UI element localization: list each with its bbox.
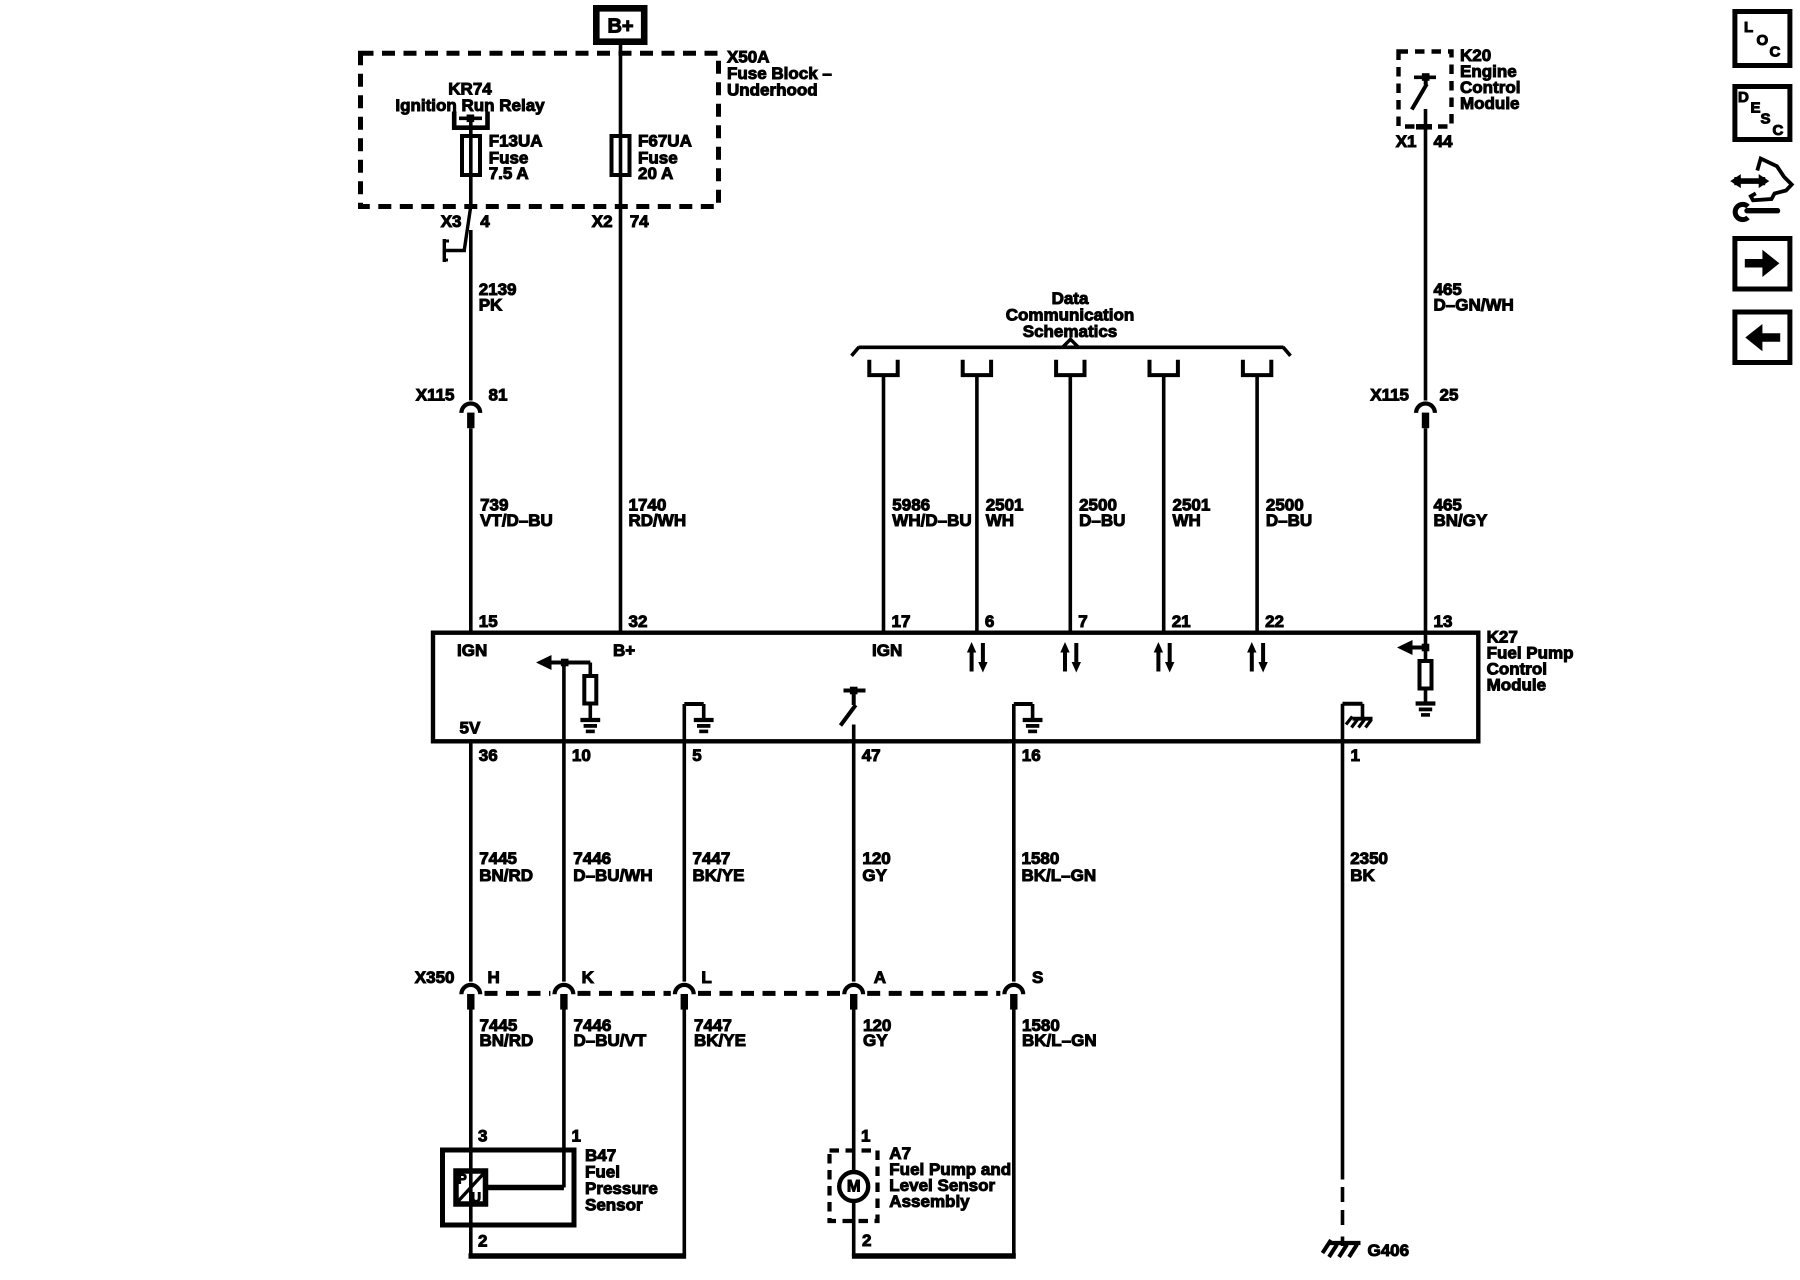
pump A7 dashed box — [830, 1151, 878, 1222]
label 7445 BN/RD below X350 — [480, 1016, 534, 1050]
switch inside K20 — [1412, 73, 1436, 109]
inline connector X115 pin 25 — [1370, 386, 1458, 429]
icon arrow next — [1735, 239, 1790, 290]
svg-text:X1: X1 — [1396, 132, 1417, 151]
svg-text:47: 47 — [862, 746, 881, 765]
svg-text:BK/YE: BK/YE — [693, 866, 745, 885]
label 7447 BK/YE — [693, 849, 745, 885]
wire B47 pin 2 to X350 L return — [469, 1253, 687, 1258]
label K20 Engine Control Module — [1460, 46, 1520, 113]
label 1580 BK/L-GN — [1022, 849, 1097, 885]
label B47 Fuel Pressure Sensor — [585, 1146, 658, 1215]
svg-text:L: L — [701, 968, 711, 987]
svg-text:74: 74 — [630, 212, 649, 231]
wire B47 pin 1 internal link — [488, 1185, 564, 1190]
label F13UA Fuse 7.5 A — [489, 132, 543, 183]
icon DESC — [1735, 87, 1790, 140]
label KR74 Ignition Run Relay — [395, 80, 545, 115]
label 7445 BN/RD — [479, 849, 533, 885]
ECM K20 dashed outline — [1399, 52, 1452, 127]
data link terminal 2500 — [1056, 360, 1084, 375]
svg-text:D–BU: D–BU — [1266, 511, 1312, 530]
fuse block X50A dashed outline — [361, 53, 719, 206]
svg-text:GY: GY — [863, 1031, 888, 1050]
svg-text:C: C — [1770, 44, 1781, 61]
pin numbers top row of K27 — [479, 612, 1453, 631]
label 1740 RD/WH — [629, 496, 687, 530]
connector X350 terminal S — [1004, 968, 1043, 1010]
wire 2501 WH to module pin 6 — [975, 375, 979, 633]
svg-text:K: K — [582, 968, 595, 987]
svg-text:5V: 5V — [460, 719, 481, 738]
label 2350 BK — [1350, 849, 1388, 885]
icon arrow back — [1735, 312, 1790, 363]
motor M symbol — [839, 1172, 868, 1201]
svg-text:D–BU/VT: D–BU/VT — [574, 1031, 647, 1050]
label 2501 WH — [1173, 496, 1211, 530]
label 465 D-GN/WH — [1434, 280, 1514, 315]
connector X350 terminal H — [461, 968, 499, 1010]
label 120 GY below X350 — [863, 1016, 891, 1050]
label 2139 PK — [479, 280, 517, 315]
label K27 Fuel Pump Control Module — [1487, 628, 1574, 695]
internal branch pin 10: arrow, resistor, ground — [536, 655, 600, 731]
svg-text:15: 15 — [479, 612, 498, 631]
svg-text:D–BU/WH: D–BU/WH — [573, 866, 652, 885]
svg-text:20 A: 20 A — [638, 164, 673, 183]
wire 739 VT/D-BU to module pin 15 — [469, 428, 473, 633]
svg-text:7.5 A: 7.5 A — [489, 164, 529, 183]
internal switch pin 47 — [841, 687, 866, 726]
svg-text:Underhood: Underhood — [727, 81, 818, 100]
label 7447 BK/YE below X350 — [694, 1016, 746, 1050]
svg-text:Assembly: Assembly — [889, 1192, 970, 1211]
svg-text:X2: X2 — [592, 212, 613, 231]
svg-text:16: 16 — [1022, 746, 1041, 765]
svg-text:BK: BK — [1350, 866, 1375, 885]
svg-text:17: 17 — [892, 612, 911, 631]
sensor B47 box — [443, 1150, 575, 1225]
serial data up/down arrows pin 6 — [967, 642, 988, 673]
wire X350 L to B47 pin 2 return — [682, 1009, 686, 1256]
svg-text:S: S — [1032, 968, 1043, 987]
svg-text:D: D — [1738, 89, 1749, 106]
label 7446 D-BU/WH — [573, 849, 652, 885]
svg-text:E: E — [1751, 100, 1761, 117]
label X50A Fuse Block Underhood — [727, 48, 832, 100]
svg-text:G406: G406 — [1368, 1241, 1410, 1260]
wire 2500 D-BU to module pin 22 — [1255, 375, 1259, 633]
wire 1740 RD/WH from B+ through fuse F67UA to module pin 32 — [619, 45, 623, 633]
internal chassis ground pin 1 — [1343, 704, 1373, 728]
wire X350 A to A7 pin 1 — [852, 1009, 856, 1172]
svg-text:O: O — [1757, 32, 1769, 49]
wire 120 GY pin 47 to X350 A — [852, 725, 856, 982]
connector X350 terminal L — [675, 968, 712, 1010]
internal ground pin 5 — [684, 704, 713, 731]
svg-text:1: 1 — [572, 1127, 581, 1146]
wire A7 pin 2 to X350 S return — [852, 1201, 856, 1256]
svg-text:PK: PK — [479, 296, 503, 315]
svg-text:Ignition Run Relay: Ignition Run Relay — [395, 96, 545, 115]
connector row X350 dashed links — [485, 991, 1001, 996]
svg-text:25: 25 — [1440, 386, 1459, 405]
svg-text:L: L — [1744, 19, 1753, 36]
wire X350 K to B47 pin 1 — [562, 1009, 566, 1188]
connector X1 pin 44 crossbar — [1396, 127, 1453, 151]
svg-text:36: 36 — [479, 746, 498, 765]
data link terminal 2501 — [1150, 360, 1178, 375]
fuse F67UA — [612, 136, 630, 175]
svg-text:X3: X3 — [441, 212, 462, 231]
svg-text:A: A — [874, 968, 886, 987]
icon LOC — [1735, 12, 1790, 66]
svg-text:BN/RD: BN/RD — [480, 1031, 534, 1050]
wire 5986 WH/D-BU to module pin 17 — [882, 375, 886, 633]
svg-text:BN/RD: BN/RD — [479, 866, 533, 885]
wire 7447 BK/YE pin 5 to X350 L — [682, 704, 686, 982]
connector X2 pin 74 — [592, 212, 649, 231]
svg-text:1: 1 — [1351, 746, 1360, 765]
label 5986 WH/D-BU — [892, 496, 971, 530]
label 465 BN/GY — [1434, 496, 1489, 530]
svg-text:RD/WH: RD/WH — [629, 511, 687, 530]
svg-text:VT/D–BU: VT/D–BU — [480, 511, 553, 530]
data link terminal 2501 — [963, 360, 991, 375]
svg-text:2: 2 — [478, 1232, 487, 1251]
svg-text:Sensor: Sensor — [585, 1196, 643, 1215]
svg-text:32: 32 — [629, 612, 648, 631]
svg-text:6: 6 — [985, 612, 994, 631]
label Data Communication Schematics — [1006, 289, 1134, 341]
svg-text:H: H — [488, 968, 500, 987]
inline connector X115 pin 81 — [416, 386, 508, 429]
serial data up/down arrows pin 7 — [1060, 642, 1081, 673]
svg-text:81: 81 — [489, 386, 508, 405]
svg-text:WH: WH — [1173, 511, 1201, 530]
svg-text:B+: B+ — [613, 641, 635, 660]
wire 2350 BK pin 1 to G406 — [1341, 704, 1345, 1180]
label 1580 BK/L-GN below X350 — [1022, 1016, 1097, 1050]
serial data up/down arrows pin 21 — [1154, 642, 1175, 673]
wire 465 D-GN/WH — [1424, 109, 1428, 401]
svg-text:BK/L–GN: BK/L–GN — [1022, 866, 1097, 885]
label 2500 D-BU — [1079, 496, 1125, 530]
connector X350 terminal A — [844, 968, 886, 1010]
fuse F13UA — [462, 136, 480, 175]
wire 2500 D-BU to module pin 7 — [1069, 375, 1073, 633]
data link terminal 5986 — [869, 360, 897, 375]
svg-text:IGN: IGN — [457, 641, 487, 660]
svg-text:Module: Module — [1487, 676, 1547, 695]
wire 2139 PK — [469, 230, 473, 401]
P/U transducer symbol — [456, 1171, 486, 1205]
data link terminal 2500 — [1243, 360, 1271, 375]
serial data up/down arrows pin 22 — [1247, 642, 1268, 673]
connector X350 terminal K — [554, 968, 594, 1010]
branch stub to other circuits at X3 — [444, 208, 470, 262]
wire X350 H to B47 pin 3 — [469, 1009, 473, 1256]
svg-text:44: 44 — [1434, 132, 1453, 151]
internal branch pin 13: arrow, resistor, ground — [1397, 633, 1435, 715]
svg-text:3: 3 — [478, 1127, 487, 1146]
brace over data link wires — [852, 339, 1291, 356]
svg-text:D–BU: D–BU — [1079, 511, 1125, 530]
icon vehicle with double arrow and wrench — [1730, 159, 1792, 220]
label F67UA Fuse 20 A — [638, 132, 692, 183]
svg-text:13: 13 — [1434, 612, 1453, 631]
module K27 Fuel Pump Control Module box — [433, 633, 1478, 742]
label 120 GY — [862, 849, 890, 885]
wire relay KR74 through fuse F13UA to connector X3 — [469, 121, 473, 209]
svg-text:S: S — [1761, 111, 1771, 128]
svg-text:X350: X350 — [415, 968, 455, 987]
svg-text:WH: WH — [986, 511, 1014, 530]
svg-text:5: 5 — [692, 746, 701, 765]
svg-text:BK/L–GN: BK/L–GN — [1022, 1031, 1097, 1050]
wire 465 BN/GY to module pin 13 — [1424, 428, 1428, 633]
svg-text:M: M — [847, 1177, 861, 1195]
svg-text:X115: X115 — [1370, 386, 1409, 405]
relay KR74 contact — [454, 112, 487, 128]
svg-text:GY: GY — [862, 866, 887, 885]
svg-text:U: U — [471, 1190, 481, 1205]
svg-text:P: P — [458, 1172, 467, 1187]
svg-text:4: 4 — [480, 212, 490, 231]
internal ground pin 16 — [1014, 704, 1043, 731]
wire X350 S down — [1012, 1009, 1016, 1256]
wire 7445 BN/RD pin 36 to X350 H — [469, 743, 473, 982]
svg-text:Module: Module — [1460, 94, 1520, 113]
svg-text:2: 2 — [862, 1231, 871, 1250]
svg-text:10: 10 — [572, 746, 591, 765]
svg-text:B+: B+ — [607, 15, 633, 37]
svg-text:22: 22 — [1265, 612, 1284, 631]
label 739 VT/D-BU — [480, 496, 553, 530]
label A7 Fuel Pump and Level Sensor Assembly — [889, 1144, 1011, 1211]
svg-text:D–GN/WH: D–GN/WH — [1434, 296, 1514, 315]
label 7446 D-BU/VT below X350 — [574, 1016, 647, 1050]
svg-text:C: C — [1773, 122, 1784, 139]
wire 7446 D-BU/WH pin 10 to X350 K — [562, 663, 566, 982]
wire 1580 BK/L-GN pin 16 to X350 S — [1012, 704, 1016, 982]
label 2501 WH — [986, 496, 1024, 530]
wire 2501 WH to module pin 21 — [1162, 375, 1166, 633]
svg-text:BN/GY: BN/GY — [1434, 511, 1489, 530]
svg-text:7: 7 — [1078, 612, 1087, 631]
connector X3 pin 4 — [441, 212, 490, 231]
pin numbers bottom row of K27 — [479, 746, 1360, 765]
svg-text:BK/YE: BK/YE — [694, 1031, 746, 1050]
power symbol B+ — [596, 8, 644, 41]
svg-text:X115: X115 — [416, 386, 455, 405]
ground G406 — [1323, 1240, 1410, 1260]
label 2500 D-BU — [1266, 496, 1312, 530]
svg-text:1: 1 — [861, 1127, 870, 1146]
svg-text:21: 21 — [1172, 612, 1191, 631]
svg-text:WH/D–BU: WH/D–BU — [892, 511, 971, 530]
svg-text:IGN: IGN — [872, 641, 902, 660]
